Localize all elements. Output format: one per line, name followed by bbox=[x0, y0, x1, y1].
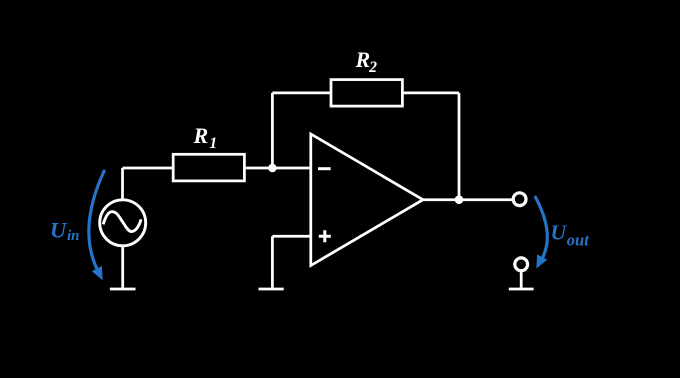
resistor R2 bbox=[331, 80, 402, 107]
U_out arrowhead bbox=[536, 254, 547, 268]
svg-text:R: R bbox=[355, 47, 371, 72]
resistor R1 bbox=[173, 154, 244, 181]
wire feedback top right bbox=[402, 92, 459, 95]
op-amp minus pin label bbox=[318, 167, 331, 170]
wire plus input down to ground bbox=[271, 236, 274, 287]
output node junction dot bbox=[455, 195, 464, 204]
wire feedback down to output node bbox=[458, 93, 461, 200]
svg-text:U: U bbox=[50, 217, 68, 242]
svg-text:1: 1 bbox=[209, 135, 217, 152]
source sine wave bbox=[103, 212, 141, 232]
wire op-amp output to terminal bbox=[423, 198, 512, 201]
wire R1 to op-amp inverting input bbox=[244, 167, 310, 170]
lower output terminal circle bbox=[515, 258, 528, 271]
wire lower terminal to ground bbox=[520, 272, 523, 288]
source U AC symbol circle bbox=[100, 200, 146, 246]
output terminal circle bbox=[513, 193, 526, 206]
svg-text:in: in bbox=[67, 228, 80, 244]
wire input row from source to R1 bbox=[123, 167, 174, 170]
svg-text:R: R bbox=[193, 123, 209, 148]
ground bar under source bbox=[110, 288, 136, 291]
ground bar at plus input bbox=[259, 288, 284, 291]
wire source bottom lead bbox=[121, 246, 124, 288]
wire feedback top left bbox=[272, 92, 331, 95]
node A junction dot bbox=[268, 164, 277, 173]
svg-text:out: out bbox=[567, 231, 589, 250]
ground bar lower right bbox=[509, 288, 534, 291]
svg-text:U: U bbox=[551, 221, 568, 245]
op-amp U1 triangle bbox=[311, 134, 423, 266]
U_in arrowhead bbox=[92, 266, 103, 280]
svg-text:2: 2 bbox=[368, 59, 377, 76]
op-amp plus pin label bbox=[319, 230, 331, 242]
wire non-inverting input bbox=[272, 235, 310, 238]
U_out arrow arc bbox=[536, 197, 548, 257]
wire source top lead bbox=[121, 168, 124, 200]
wire feedback riser at node A bbox=[271, 93, 274, 168]
U_in arrow arc bbox=[89, 171, 104, 271]
